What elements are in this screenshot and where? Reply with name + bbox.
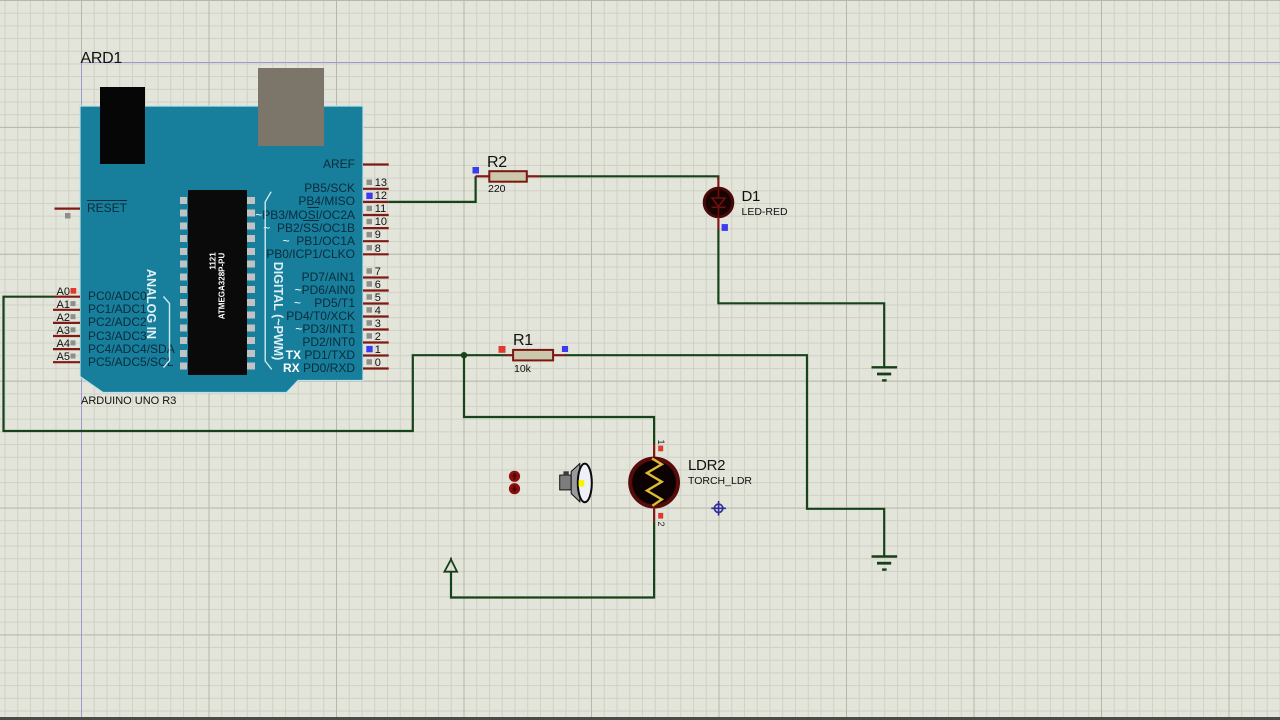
pin stub 6 <box>363 289 389 291</box>
marker square pin 11 <box>367 206 373 212</box>
marker square A2 <box>71 314 76 319</box>
pin stub 12 <box>363 201 389 203</box>
pin stub 13 <box>363 188 389 190</box>
marker square pin 1 blue <box>366 346 372 352</box>
power jack <box>100 87 145 165</box>
pin label PD6/AIN0 <box>295 284 355 297</box>
resistor R1 body <box>513 350 553 361</box>
wire R1 to ground 2 <box>567 355 885 556</box>
power terminal arrow <box>444 558 457 572</box>
op board ARD1 arduino body <box>0 0 400 400</box>
pin label PB1/OC1A <box>283 235 355 248</box>
value 10k <box>514 363 531 375</box>
torch actuator down button <box>509 483 520 494</box>
LDR pin number 1 <box>656 439 666 444</box>
usb connector <box>258 68 324 146</box>
marker square A3 <box>71 327 76 332</box>
pin stub 10 <box>363 227 389 229</box>
label LDR2 <box>688 457 725 474</box>
torch icon switch nub <box>563 471 568 475</box>
marker square A4 <box>71 340 76 345</box>
bottom window edge <box>0 717 1280 720</box>
pin number 2 <box>375 332 381 342</box>
selection box vertical line <box>81 62 82 720</box>
pin label A0 <box>57 287 70 297</box>
pin number 12 <box>375 191 387 201</box>
pin stub A0 <box>55 296 81 298</box>
pin label PC4/ADC4/SDA <box>88 343 175 356</box>
LDR2 top stub <box>653 444 655 458</box>
marker square R1 left red <box>499 346 506 353</box>
ground 2 <box>872 557 898 570</box>
pin number 7 <box>375 267 381 277</box>
label ARDUINO UNO R3 <box>81 395 176 407</box>
pin label PC2/ADC2 <box>88 316 147 329</box>
pin label PB2/SS/OC1B <box>263 222 355 235</box>
label DIGITAL (~PWM) <box>271 261 285 360</box>
marker square A5 <box>71 354 76 359</box>
marker square pin 8 <box>367 245 373 251</box>
pin label PB0/ICP1/CLKO <box>266 248 355 261</box>
marker square pin 10 <box>367 219 373 225</box>
diode D1 top stub <box>717 178 719 189</box>
marker square pin 12 blue <box>366 193 372 199</box>
resistor R1 left stub <box>506 354 513 356</box>
pin stub 7 <box>363 276 389 278</box>
marker square R1 right blue <box>562 346 568 352</box>
wire LDR to power terminal <box>451 521 654 597</box>
wire junction to LDR pin 1 <box>464 355 654 444</box>
pin stub A5 <box>53 361 80 363</box>
pin label RESET <box>87 202 127 215</box>
pin stub 9 <box>363 240 389 242</box>
label R2 <box>487 154 507 172</box>
chip label ATMEGA328P-PU <box>217 253 226 320</box>
pin label TX PD1/TXD <box>286 349 355 362</box>
pin label AREF <box>323 158 355 171</box>
pin stub A3 <box>53 335 80 337</box>
LED D1 diode symbol <box>712 190 726 216</box>
marker square pin 7 <box>367 268 373 274</box>
label D1 <box>742 188 761 205</box>
marker square RESET <box>65 213 71 219</box>
pin label PD3/INT1 <box>295 323 355 336</box>
label ANALOG IN <box>144 269 158 339</box>
pin number 10 <box>375 217 387 227</box>
pin stub AREF <box>363 163 389 165</box>
pin label PC5/ADC5/SCL <box>88 356 173 369</box>
pin number 3 <box>375 319 381 329</box>
pin stub RESET <box>55 208 81 210</box>
chip label 1121 <box>209 252 218 269</box>
pin label PD7/AIN1 <box>302 271 355 284</box>
pin label PD4/T0/XCK <box>286 310 355 323</box>
pin label PB5/SCK <box>304 182 355 195</box>
pin label A4 <box>57 339 70 349</box>
pin number 9 <box>375 230 381 240</box>
brace digital group <box>265 192 272 370</box>
marker square LDR pin2 red <box>658 513 663 519</box>
marker square R2 left blue <box>473 167 480 174</box>
pin label PB3/MOSI/OC2A <box>255 209 355 222</box>
pin label A2 <box>57 313 70 323</box>
pin stub 1 <box>363 354 389 356</box>
pin stub A1 <box>53 309 80 311</box>
torch actuator up button <box>509 471 520 482</box>
pin label PC0/ADC0 <box>88 290 147 303</box>
pin stub 11 <box>363 214 389 216</box>
wire pin12 to R2 <box>389 176 476 202</box>
pin label PB4/MISO <box>298 195 355 208</box>
brace analog in group <box>164 297 170 368</box>
pin number 11 <box>375 204 386 214</box>
torch icon lens ellipse <box>578 464 592 503</box>
ground 1 <box>872 367 898 380</box>
selection box horizontal line <box>81 62 1280 63</box>
LDR2 body <box>630 459 678 507</box>
label ARD1 <box>81 50 122 68</box>
torch icon yellow dot <box>579 480 585 487</box>
marker square pin 3 <box>367 320 373 326</box>
pin label A5 <box>57 352 70 362</box>
pin stub 2 <box>363 341 389 343</box>
junction node <box>461 352 467 358</box>
marker square pin 0 <box>367 359 373 365</box>
pin stub 5 <box>363 302 389 304</box>
marker square pin 6 <box>367 281 373 287</box>
label R1 <box>513 332 533 350</box>
resistor R2 body <box>489 171 527 182</box>
marker square pin 5 <box>367 294 373 300</box>
resistor R2 right stub <box>527 175 540 177</box>
chip pins right column <box>247 197 255 370</box>
pin stub A2 <box>53 322 80 324</box>
pin label RX PD0/RXD <box>283 362 355 375</box>
torch icon body <box>560 475 572 490</box>
marker square A1 <box>71 301 76 306</box>
wire A0 to TX-row corner <box>4 297 507 431</box>
torch icon horn <box>571 464 580 502</box>
pin stub 3 <box>363 328 389 330</box>
LED D1 body <box>704 188 733 217</box>
marker square pin 4 <box>367 307 373 313</box>
value 220 <box>488 183 506 195</box>
pin label A3 <box>57 326 70 336</box>
IC chip U1 body <box>188 190 247 375</box>
marker square LDR pin1 red <box>658 446 663 452</box>
pin label PD5/T1 <box>294 297 355 310</box>
pin number 4 <box>375 306 381 316</box>
pin number 8 <box>375 244 381 254</box>
resistor R2 left stub <box>476 175 490 177</box>
pin stub 4 <box>363 315 389 317</box>
pin label PC3/ADC3 <box>88 330 147 343</box>
LDR2 bottom stub <box>653 508 655 522</box>
marker square pin 2 <box>367 333 373 339</box>
marker square pin 9 <box>367 232 373 238</box>
pin stub A4 <box>53 348 80 350</box>
origin crosshair marker <box>711 501 726 516</box>
wire R2 to D1 <box>540 176 718 180</box>
pin label PC1/ADC1 <box>88 303 147 316</box>
wire D1 to ground 1 <box>718 230 884 367</box>
pin number 6 <box>375 280 381 290</box>
value TORCH_LDR <box>688 475 752 487</box>
LDR2 zigzag <box>647 459 662 506</box>
diode D1 bottom stub <box>717 217 719 230</box>
marker square pin 13 <box>367 180 373 186</box>
pin label PD2/INT0 <box>302 336 355 349</box>
marker square D1 blue <box>722 224 728 231</box>
pin number 0 <box>375 358 381 368</box>
pin stub 8 <box>363 253 389 255</box>
LDR pin number 2 <box>656 521 666 526</box>
marker square A0 red <box>71 288 77 294</box>
pin number 13 <box>375 178 387 188</box>
chip pins left column <box>180 197 188 370</box>
pin number 5 <box>375 293 381 303</box>
resistor R1 right stub <box>553 354 566 356</box>
value LED-RED <box>742 206 788 218</box>
pin label A1 <box>57 300 70 310</box>
pin number 1 <box>375 345 381 355</box>
pin stub 0 <box>363 367 389 369</box>
